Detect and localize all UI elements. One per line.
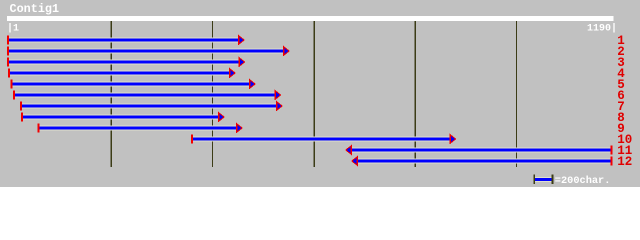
svg-text:=200char.: =200char.	[555, 175, 611, 187]
svg-text:12: 12	[617, 155, 632, 169]
svg-text:Contig1: Contig1	[10, 2, 60, 16]
svg-text:1190|: 1190|	[587, 23, 617, 35]
svg-text:|1: |1	[7, 23, 19, 35]
